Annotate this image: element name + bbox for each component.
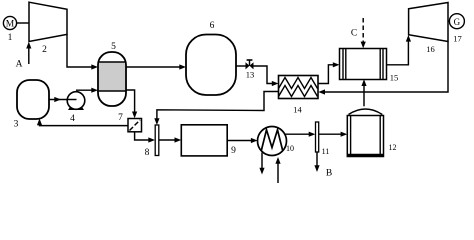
unit 9 bbox=[181, 125, 227, 156]
wire vessel6 outlet to valve 13 bbox=[236, 65, 246, 67]
svg-text:12: 12 bbox=[389, 143, 397, 152]
svg-text:A: A bbox=[16, 60, 23, 70]
svg-text:6: 6 bbox=[210, 21, 215, 31]
wire separator7 recycle to vessel 3 bbox=[40, 123, 129, 126]
wire inlet A into compressor bbox=[28, 47, 30, 65]
heat exchanger 14 bbox=[279, 76, 319, 99]
filter 8 bbox=[155, 125, 159, 156]
pump 4 bbox=[68, 105, 84, 111]
valve 13 bbox=[246, 62, 250, 69]
wire tank12 vapor to reactor 15 bbox=[363, 84, 365, 107]
svg-text:7: 7 bbox=[118, 113, 123, 123]
svg-text:13: 13 bbox=[246, 70, 255, 80]
vessel 5 bbox=[98, 52, 126, 106]
wire turbine exhaust to hx14 cold inlet bbox=[323, 42, 448, 93]
svg-text:16: 16 bbox=[426, 44, 435, 54]
generator G 17 bbox=[448, 20, 449, 22]
svg-text:11: 11 bbox=[322, 147, 330, 156]
wire cooler10 coolant out down bbox=[261, 153, 263, 171]
svg-text:5: 5 bbox=[111, 42, 116, 52]
wire vessel5 bottom outlet to separator 7 bbox=[126, 90, 135, 114]
separator 7 bbox=[128, 119, 142, 132]
svg-text:14: 14 bbox=[293, 105, 302, 115]
svg-text:G: G bbox=[454, 17, 461, 27]
motor M1 circle bbox=[3, 16, 16, 29]
wire cooler10 to filter 11 bbox=[285, 133, 311, 135]
wire separator7 bottom to filter 8 bbox=[135, 132, 151, 140]
wire hx14 hot outlet to reactor 15 bbox=[318, 65, 335, 84]
vessel 5 shaded packing band bbox=[99, 62, 125, 91]
wire M1 to compressor bbox=[17, 22, 29, 24]
wire cooler10 coolant in up bbox=[277, 162, 279, 184]
wire compressor outlet to vessel 5 bbox=[67, 34, 94, 67]
filter 11 bbox=[316, 122, 319, 152]
svg-text:10: 10 bbox=[286, 144, 294, 153]
wire filter8 to unit 9 bbox=[159, 139, 177, 141]
svg-text:M: M bbox=[6, 20, 15, 30]
svg-text:1: 1 bbox=[8, 33, 13, 43]
dashed feed C into reactor 15 bbox=[362, 18, 364, 42]
wire filter11 drain B bbox=[316, 152, 318, 168]
svg-text:8: 8 bbox=[145, 148, 150, 158]
wire valve13 to heat exchanger 14 bbox=[254, 66, 275, 84]
turbine 16 bbox=[409, 3, 448, 42]
vessel 3 bbox=[17, 80, 49, 119]
vessel 6 bbox=[186, 35, 236, 96]
svg-text:3: 3 bbox=[14, 120, 19, 130]
svg-text:B: B bbox=[326, 169, 332, 179]
wire unit9 to cooler 10 bbox=[227, 140, 253, 142]
wire reactor 15 outlet to turbine 16 bbox=[387, 40, 409, 65]
wire vessel3 to pump4 bbox=[49, 99, 77, 101]
svg-text:17: 17 bbox=[453, 34, 462, 44]
wire pump4 outlet to vessel 5 bbox=[76, 89, 94, 91]
wire hx14 cold outlet recycle to filter 8 bbox=[157, 92, 279, 122]
svg-text:15: 15 bbox=[390, 73, 399, 83]
svg-text:4: 4 bbox=[70, 114, 75, 124]
wire vessel5 top outlet to vessel 6 bbox=[126, 66, 182, 68]
svg-text:2: 2 bbox=[42, 45, 47, 55]
cooler 10 bbox=[258, 127, 287, 156]
svg-text:9: 9 bbox=[231, 146, 236, 156]
tank 12 bbox=[347, 116, 383, 157]
reactor 15 bbox=[340, 49, 387, 80]
wire filter11 to tank 12 bbox=[319, 133, 343, 135]
svg-text:C: C bbox=[351, 29, 357, 39]
compressor 2 bbox=[29, 2, 67, 41]
